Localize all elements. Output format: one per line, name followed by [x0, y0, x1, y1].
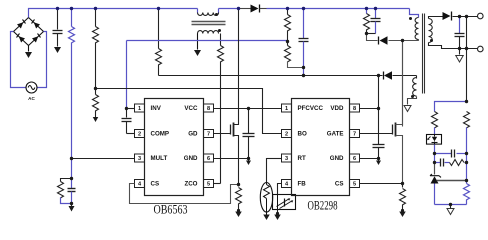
svg-text:3: 3 [285, 156, 288, 162]
svg-text:RT: RT [298, 155, 306, 162]
svg-text:1: 1 [285, 106, 288, 112]
svg-text:8: 8 [353, 106, 356, 112]
svg-text:OB2298: OB2298 [308, 199, 338, 213]
svg-text:8: 8 [207, 106, 210, 112]
svg-text:7: 7 [353, 132, 356, 138]
svg-text:2: 2 [285, 132, 288, 138]
svg-text:COMP: COMP [151, 131, 170, 138]
svg-text:AC: AC [28, 96, 35, 101]
svg-text:MULT: MULT [151, 155, 168, 162]
svg-text:VCC: VCC [184, 105, 198, 112]
svg-text:CS: CS [335, 181, 344, 188]
svg-text:CS: CS [151, 181, 160, 188]
svg-text:FB: FB [298, 181, 307, 188]
svg-text:VDD: VDD [330, 105, 344, 112]
svg-text:2: 2 [138, 132, 141, 138]
svg-text:7: 7 [207, 132, 210, 138]
svg-text:3: 3 [138, 156, 141, 162]
svg-text:5: 5 [207, 182, 210, 188]
svg-text:BO: BO [298, 131, 307, 138]
svg-text:6: 6 [207, 156, 210, 162]
svg-text:OB6563: OB6563 [154, 203, 188, 217]
svg-text:5: 5 [353, 182, 356, 188]
svg-text:GND: GND [330, 155, 344, 162]
svg-text:ZCO: ZCO [184, 181, 197, 188]
svg-text:6: 6 [353, 156, 356, 162]
svg-text:PFCVCC: PFCVCC [298, 105, 324, 112]
svg-text:1: 1 [138, 106, 141, 112]
svg-text:INV: INV [151, 105, 162, 112]
svg-text:GD: GD [188, 131, 198, 138]
svg-text:GND: GND [184, 155, 198, 162]
svg-text:GATE: GATE [327, 131, 344, 138]
